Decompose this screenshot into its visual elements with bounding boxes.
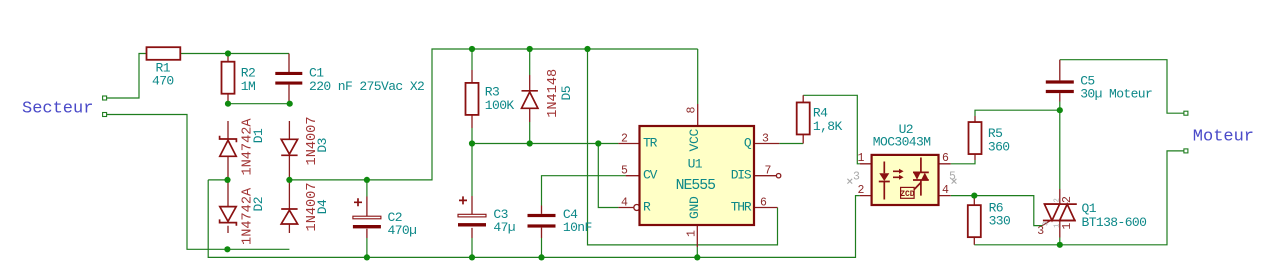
svg-text:THR: THR [731,199,752,214]
svg-text:D2: D2 [251,197,266,211]
svg-text:10nF: 10nF [563,220,592,235]
svg-text:220 nF 275Vac X2: 220 nF 275Vac X2 [309,79,424,94]
svg-text:5: 5 [621,165,628,178]
svg-text:1: 1 [1054,224,1062,228]
svg-text:30µ Moteur: 30µ Moteur [1080,87,1152,102]
svg-text:1N4742A: 1N4742A [241,187,256,245]
svg-text:7: 7 [765,165,772,178]
svg-text:CV: CV [643,168,658,183]
svg-text:Q1: Q1 [1082,201,1097,216]
svg-text:GND: GND [687,196,702,219]
svg-text:1M: 1M [241,79,255,94]
svg-text:1: 1 [1061,223,1074,230]
svg-text:3: 3 [853,171,860,184]
svg-text:2: 2 [1054,198,1062,202]
svg-text:6: 6 [760,196,767,209]
svg-text:TR: TR [643,135,658,150]
svg-text:ZCD: ZCD [900,190,915,199]
svg-text:1,8K: 1,8K [813,119,843,134]
svg-text:2: 2 [1061,196,1074,203]
svg-text:47µ: 47µ [493,220,515,235]
svg-text:470µ: 470µ [388,223,417,238]
svg-text:DIS: DIS [731,168,752,183]
svg-text:3: 3 [1042,222,1050,226]
svg-text:2: 2 [858,184,865,197]
svg-text:VCC: VCC [687,128,702,151]
svg-text:1: 1 [858,152,865,165]
svg-text:MOC3043M: MOC3043M [873,134,931,149]
svg-text:D4: D4 [315,199,330,214]
svg-text:Moteur: Moteur [1193,127,1254,146]
svg-text:Secteur: Secteur [22,99,93,118]
svg-text:NE555: NE555 [676,178,716,194]
svg-text:3: 3 [1037,225,1044,238]
svg-text:470: 470 [152,74,174,89]
svg-text:8: 8 [686,106,699,113]
svg-text:1: 1 [685,230,698,237]
svg-text:360: 360 [988,139,1010,154]
svg-text:6: 6 [942,152,949,165]
svg-text:D5: D5 [559,86,574,100]
svg-text:2: 2 [621,132,628,145]
svg-text:100K: 100K [485,98,515,113]
svg-text:U1: U1 [688,156,703,171]
svg-text:1N4742A: 1N4742A [241,118,256,176]
svg-text:D3: D3 [315,138,330,152]
svg-text:4: 4 [621,196,628,209]
svg-text:3: 3 [762,132,769,145]
svg-text:4: 4 [942,184,949,197]
svg-text:330: 330 [989,214,1011,229]
svg-text:BT138-600: BT138-600 [1082,215,1147,230]
svg-text:D1: D1 [251,128,266,143]
